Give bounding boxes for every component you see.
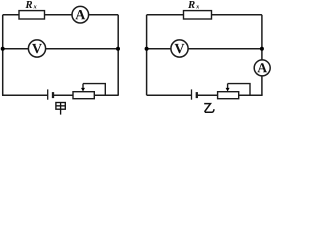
rheostat R1 box (left circuit) [73,92,94,99]
battery B1 short thick plate (left circuit) [52,92,54,98]
wire: voltmeter branch horizontal (right circuit) [147,48,262,50]
wire: bottom segment battery to rheostat (right circuit) [197,94,218,96]
wire: right vertical (right circuit) [261,15,263,95]
wire: bottom segment rheostat to right vertical (left circuit) [94,94,119,96]
node dot: left junction of voltmeter branch (right circuit) [145,47,149,51]
ammeter A1 circle (left circuit, top wire) [72,6,89,23]
node dot: right junction of voltmeter branch (left circuit) [116,47,120,51]
resistor Rx box (left circuit) [19,11,45,19]
node dot: left junction of voltmeter branch (left circuit) [1,47,5,51]
wire: bottom segment battery to rheostat (left circuit) [53,94,74,96]
wire: bottom segment rheostat to right vertical (right circuit) [238,94,262,96]
voltmeter V2 circle (right circuit, middle wire) [171,40,188,57]
battery B2 long plate (right circuit) [191,89,193,99]
label Rx (right circuit) [188,1,195,8]
wire: left vertical (left circuit) [2,15,4,95]
wire: bottom horizontal left segment to battery (right circuit) [147,94,192,96]
rheostat R2 slider arrow (right circuit) [227,84,229,89]
wire: top horizontal (right circuit) [147,14,262,16]
wire: voltmeter branch horizontal (left circuit) [3,48,119,50]
wire: left vertical (right circuit) [146,15,148,95]
battery B1 long plate (left circuit) [47,89,49,99]
wire: bottom horizontal left segment to battery (left circuit) [2,94,48,96]
wire: right vertical (left circuit) [117,15,119,95]
voltmeter V1 circle (left circuit, middle wire) [28,40,45,57]
node dot: right junction of voltmeter branch (right circuit) [260,47,264,51]
ammeter A2 circle (right circuit, right branch) [254,60,270,76]
wire: top horizontal (left circuit) [3,14,119,16]
battery B2 short thick plate (right circuit) [196,92,198,98]
label jia (Chinese character for left circuit) [56,103,65,115]
resistor Rx box (right circuit) [184,11,212,19]
label Rx (left circuit) [25,1,32,8]
wire: slider arm L-wire (left circuit) [83,84,105,96]
wire: slider arm L-wire (right circuit) [228,84,250,96]
rheostat R2 box (right circuit) [218,92,239,99]
label yi (Chinese character for right circuit) [204,104,214,113]
rheostat R1 slider arrow (left circuit) [82,84,84,89]
